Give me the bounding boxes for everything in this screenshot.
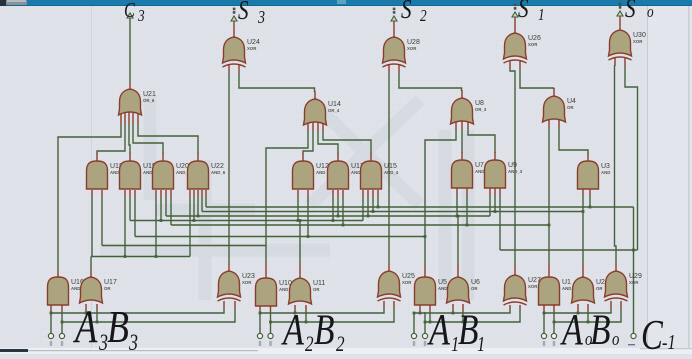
svg-text:AND: AND — [562, 286, 571, 291]
svg-text:XOR: XOR — [528, 42, 538, 47]
svg-text:U3: U3 — [601, 163, 610, 170]
svg-text:U30: U30 — [633, 32, 646, 39]
svg-text:AND_4: AND_4 — [384, 170, 399, 175]
svg-text:o: o — [612, 328, 619, 349]
svg-text:XOR: XOR — [242, 280, 252, 285]
svg-text:B: B — [314, 307, 334, 354]
svg-text:3: 3 — [257, 9, 265, 28]
svg-text:U1: U1 — [562, 279, 571, 286]
svg-text:U15: U15 — [384, 163, 397, 170]
svg-text:3: 3 — [128, 331, 138, 354]
svg-text:U4: U4 — [567, 98, 576, 105]
svg-text:AND: AND — [438, 286, 447, 291]
svg-text:2: 2 — [305, 332, 314, 354]
svg-text:U7: U7 — [475, 162, 484, 169]
svg-text:XOR: XOR — [407, 46, 417, 51]
svg-text:U24: U24 — [247, 39, 260, 46]
svg-text:OR: OR — [596, 286, 603, 291]
svg-text:XOR: XOR — [528, 284, 538, 289]
svg-text:1: 1 — [538, 6, 545, 25]
svg-text:AND_6: AND_6 — [211, 170, 226, 175]
svg-text:A: A — [280, 305, 304, 354]
svg-text:U22: U22 — [211, 163, 224, 170]
svg-text:U26: U26 — [528, 35, 541, 42]
svg-text:AND: AND — [71, 286, 80, 291]
svg-text:XOR: XOR — [629, 280, 639, 285]
svg-text:U25: U25 — [402, 273, 415, 280]
svg-text:XOR: XOR — [402, 280, 412, 285]
svg-text:B: B — [458, 307, 478, 354]
svg-text:U6: U6 — [471, 279, 480, 286]
svg-text:U2: U2 — [596, 279, 605, 286]
svg-text:S: S — [518, 0, 529, 24]
svg-text:-1: -1 — [662, 331, 676, 354]
svg-text:AND: AND — [601, 170, 610, 175]
svg-text:U21: U21 — [143, 91, 156, 98]
svg-text:C: C — [641, 312, 664, 354]
svg-text:AND: AND — [110, 170, 119, 175]
svg-text:U8: U8 — [475, 100, 484, 107]
svg-text:U5: U5 — [438, 279, 447, 286]
svg-text:U23: U23 — [242, 273, 255, 280]
svg-text:OR_3: OR_3 — [475, 107, 487, 112]
svg-text:A: A — [559, 305, 583, 354]
svg-text:1: 1 — [477, 333, 485, 354]
svg-text:OR: OR — [313, 287, 320, 292]
svg-text:B: B — [107, 301, 129, 352]
svg-text:XOR: XOR — [633, 39, 643, 44]
svg-text:AND: AND — [475, 169, 484, 174]
svg-text:OR: OR — [471, 286, 478, 291]
svg-text:2: 2 — [420, 7, 427, 26]
svg-text:2: 2 — [336, 332, 345, 354]
svg-text:o: o — [647, 3, 654, 22]
svg-text:3: 3 — [137, 7, 145, 26]
svg-text:U28: U28 — [407, 39, 420, 46]
svg-text:U17: U17 — [104, 279, 117, 286]
svg-text:OR_6: OR_6 — [143, 98, 155, 103]
svg-text:XOR: XOR — [247, 46, 257, 51]
svg-text:B: B — [590, 307, 610, 354]
svg-text:AND_3: AND_3 — [508, 169, 523, 174]
svg-text:OR: OR — [104, 286, 111, 291]
svg-text:C: C — [124, 0, 135, 23]
svg-text:S: S — [401, 0, 412, 25]
svg-text:U9: U9 — [508, 162, 517, 169]
svg-text:A: A — [426, 305, 450, 354]
svg-text:U11: U11 — [313, 280, 325, 287]
svg-text:S: S — [238, 0, 249, 26]
svg-text:AND: AND — [316, 170, 325, 175]
svg-text:AND: AND — [279, 287, 288, 292]
svg-text:U14: U14 — [328, 101, 341, 108]
svg-text:OR_4: OR_4 — [328, 108, 340, 113]
svg-text:U29: U29 — [629, 273, 642, 280]
svg-text:A: A — [72, 301, 97, 353]
svg-text:S: S — [625, 0, 636, 24]
svg-text:OR: OR — [567, 105, 574, 110]
